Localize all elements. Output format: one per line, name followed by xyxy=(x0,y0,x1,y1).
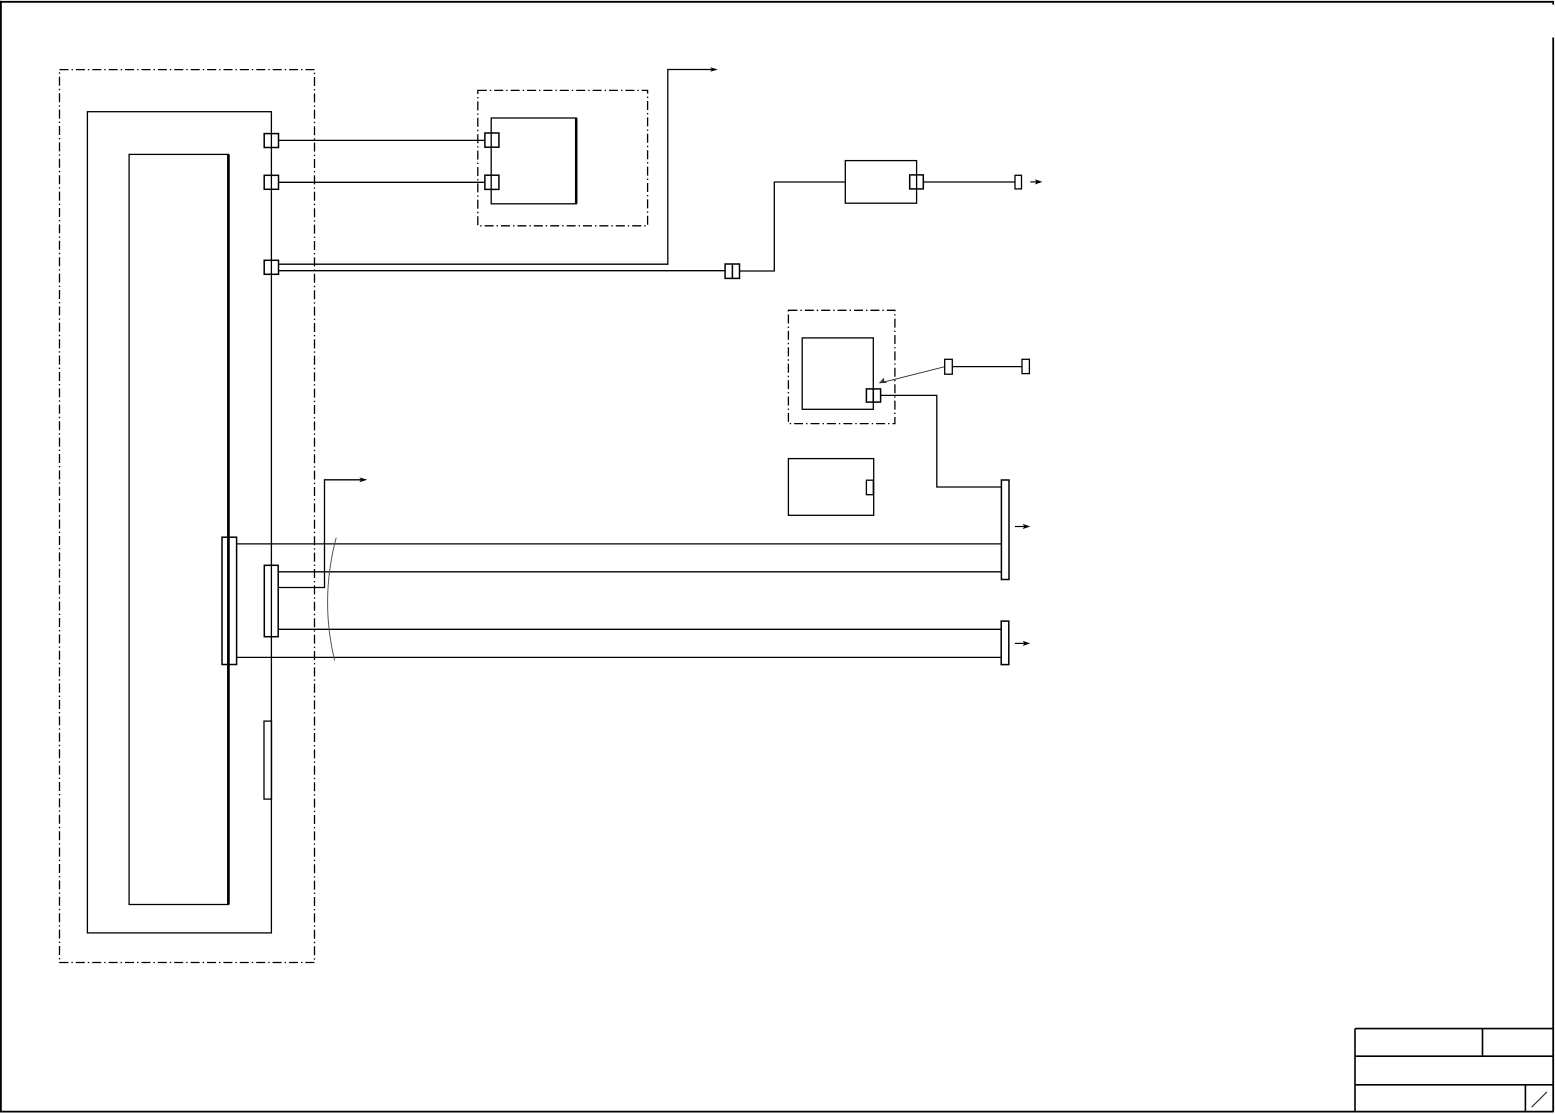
inner box thick right edge xyxy=(227,154,230,904)
ignition switch connector pin B xyxy=(485,175,499,189)
wire relay to terminal pill xyxy=(923,181,1015,183)
arrow at terminal bar 2 xyxy=(1015,642,1025,644)
ignition switch body xyxy=(491,118,576,204)
ignition switch body thick right edge xyxy=(575,118,578,204)
leader arrow from terminal to sensor connector xyxy=(882,367,944,383)
terminal bar 2 xyxy=(1001,621,1009,665)
arrow at terminal bar 1 xyxy=(1015,526,1025,528)
wire pin3 lower branch to inline connector xyxy=(279,270,726,272)
title block diagonal slash xyxy=(1532,1092,1547,1107)
harness grouping arc xyxy=(328,538,337,661)
wire sensor connector to bar terminal 1 xyxy=(881,395,1002,487)
connector square pin 2 xyxy=(264,175,278,189)
harness wire C with arrow xyxy=(278,480,361,588)
relay output connector xyxy=(910,175,924,189)
wire pin2 to ignition switch module xyxy=(279,181,485,183)
arrow after relay terminal xyxy=(1030,181,1038,183)
harness wire E xyxy=(237,656,1002,658)
wire inline connector to relay xyxy=(740,182,846,271)
ignition switch enclosure (dash-dot) xyxy=(478,90,648,225)
terminal pill right xyxy=(1022,359,1029,373)
tall connector block on inner box edge xyxy=(222,537,237,664)
junction block outer box xyxy=(87,112,271,933)
arrowhead upper branch xyxy=(710,67,718,72)
sensor body xyxy=(802,338,873,409)
harness wire A xyxy=(237,543,1002,545)
terminal bar 1 xyxy=(1001,480,1009,580)
relay box xyxy=(845,161,916,204)
terminal pill after relay xyxy=(1015,175,1022,189)
harness wire D xyxy=(278,628,1001,630)
wire between terminal pills xyxy=(952,366,1022,368)
connector square pin 3 xyxy=(264,260,278,274)
harness wire B xyxy=(278,571,1001,573)
lower half-connector on outer box edge xyxy=(264,721,272,799)
title block xyxy=(1355,1029,1553,1112)
wire pin1 to ignition switch module xyxy=(279,139,485,141)
ignition switch connector pin A xyxy=(485,133,499,147)
sensor connector pair on right edge xyxy=(866,389,880,402)
junction block inner box xyxy=(129,154,228,904)
terminal pill left xyxy=(945,359,953,374)
wire pin3 upper branch xyxy=(279,70,713,265)
connector square pin 1 xyxy=(264,134,278,148)
sensor enclosure (dash-dot) xyxy=(788,310,895,423)
unconnected module connector notch xyxy=(866,480,873,495)
tall connector block on outer box edge xyxy=(264,565,278,636)
left harness enclosure (dash-dot) xyxy=(60,70,315,963)
unconnected module box xyxy=(788,459,873,516)
inline connector pair xyxy=(725,264,739,278)
